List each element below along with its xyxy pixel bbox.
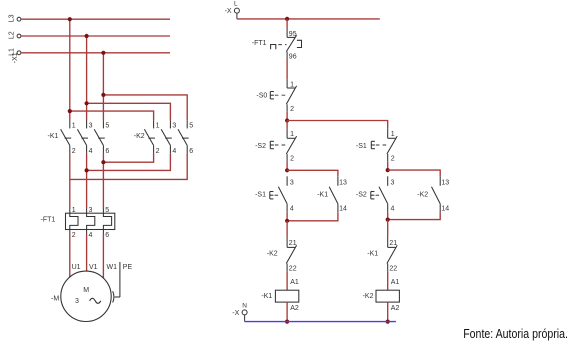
pushbutton actuator S1 NC bbox=[371, 141, 375, 148]
dashed link S0 bbox=[275, 94, 287, 96]
wire K1:2 to FT1:1 bbox=[69, 153, 71, 208]
svg-text:6: 6 bbox=[105, 232, 109, 239]
wire L2 branch to K2:3 bbox=[87, 103, 171, 120]
svg-text:96: 96 bbox=[289, 53, 297, 60]
svg-text:5: 5 bbox=[105, 123, 109, 130]
svg-text:22: 22 bbox=[389, 266, 397, 273]
contactor K1 pole 3-4 bbox=[77, 120, 92, 154]
svg-text:-K1: -K1 bbox=[48, 133, 59, 140]
thermal overload relay FT1 bbox=[41, 207, 115, 239]
svg-text:5: 5 bbox=[105, 207, 109, 214]
node tap K2:1 bbox=[68, 109, 72, 113]
node K2:4/K1:4 bbox=[85, 168, 89, 172]
coil K1 A1-A2 bbox=[261, 279, 298, 312]
wire K2:6 to node K1:2 bbox=[70, 153, 187, 179]
wire S1:2 to node bbox=[387, 161, 389, 170]
wire FT1:2 to motor U1 bbox=[69, 234, 71, 279]
svg-text:6: 6 bbox=[189, 148, 193, 155]
svg-text:-S0: -S0 bbox=[256, 93, 267, 100]
contact K2 21-22 (NC) bbox=[286, 238, 296, 273]
svg-text:-X1: -X1 bbox=[12, 52, 19, 63]
svg-text:3: 3 bbox=[290, 180, 294, 187]
stub terminal L bbox=[236, 13, 238, 19]
svg-text:14: 14 bbox=[441, 205, 449, 212]
wire neutral bus (blue) bbox=[245, 321, 396, 323]
node tap K2:3 bbox=[85, 101, 89, 105]
svg-text:6: 6 bbox=[105, 148, 109, 155]
terminal L2 of -X1 bbox=[17, 34, 21, 38]
dashed link S1 bbox=[275, 194, 281, 196]
svg-text:L3: L3 bbox=[9, 14, 16, 22]
wire FT1:4 to motor V1 bbox=[86, 234, 88, 272]
svg-text:2: 2 bbox=[72, 232, 76, 239]
terminal L of -X1 (control top) bbox=[234, 8, 239, 13]
wire L2 bus bbox=[21, 35, 170, 37]
wire K2:A2 to neutral bbox=[387, 302, 389, 322]
contactor K2 pole 1-2 bbox=[144, 120, 159, 154]
svg-text:4: 4 bbox=[290, 205, 294, 212]
wire branch to K2 rung bbox=[287, 121, 388, 129]
svg-text:4: 4 bbox=[172, 148, 176, 155]
contactor K1 pole 5-6 bbox=[94, 120, 109, 154]
svg-text:1: 1 bbox=[391, 131, 395, 138]
wire K1:14 to node bbox=[287, 212, 338, 221]
wire node to K1:21 bbox=[387, 220, 389, 238]
contactor K1 pole 1-2 bbox=[61, 120, 76, 154]
svg-text:L2: L2 bbox=[9, 31, 16, 39]
svg-text:21: 21 bbox=[389, 240, 397, 247]
svg-text:2: 2 bbox=[290, 156, 294, 163]
coil K2 A1-A2 bbox=[363, 279, 400, 312]
svg-text:-M: -M bbox=[51, 296, 59, 303]
svg-text:3: 3 bbox=[89, 207, 93, 214]
node top bus / FT1 bbox=[285, 17, 289, 21]
svg-text:U1: U1 bbox=[72, 264, 81, 271]
svg-text:A2: A2 bbox=[290, 305, 299, 312]
svg-text:V1: V1 bbox=[89, 264, 98, 271]
node S2:2 / parallel bbox=[285, 168, 289, 172]
contact K1 13-14 (NO aux) bbox=[329, 176, 347, 212]
svg-text:A1: A1 bbox=[391, 279, 400, 286]
terminal L1 of -X1 bbox=[17, 51, 21, 55]
svg-text:2: 2 bbox=[156, 148, 160, 155]
thermal actuator symbol FT1 bbox=[271, 45, 276, 50]
pushbutton actuator S1 bbox=[270, 192, 274, 199]
svg-text:4: 4 bbox=[89, 232, 93, 239]
pushbutton actuator S2 NO bbox=[371, 192, 375, 199]
node neutral / K2 bbox=[386, 320, 390, 324]
svg-text:L: L bbox=[234, 1, 238, 8]
wire K1:A2 to neutral bbox=[286, 302, 288, 322]
contactor K2 pole 3-4 bbox=[161, 120, 176, 154]
svg-text:22: 22 bbox=[289, 266, 297, 273]
wire L2 to K1:3 bbox=[86, 36, 88, 120]
contact S2 3-4 (NO) bbox=[379, 176, 395, 212]
svg-text:-K1: -K1 bbox=[317, 191, 328, 198]
dashed link FT1 bbox=[278, 44, 286, 46]
node S1:2 / parallel right bbox=[386, 168, 390, 172]
svg-text:13: 13 bbox=[339, 180, 347, 187]
svg-text:PE: PE bbox=[123, 264, 133, 271]
svg-text:A2: A2 bbox=[391, 305, 400, 312]
svg-text:-FT1: -FT1 bbox=[41, 217, 56, 224]
svg-text:95: 95 bbox=[289, 31, 297, 38]
wire S1:4 to node bbox=[286, 212, 288, 221]
svg-text:-K2: -K2 bbox=[363, 293, 374, 300]
wire K2:2 to node K1:6 bbox=[103, 153, 153, 162]
svg-text:-K2: -K2 bbox=[267, 251, 278, 258]
dashed link S2 NO bbox=[376, 194, 382, 196]
PE conductor bbox=[113, 262, 133, 303]
svg-text:-K1: -K1 bbox=[261, 293, 272, 300]
contact S0 1-2 (NC) bbox=[286, 79, 296, 113]
wire L3 bus bbox=[21, 18, 170, 20]
svg-text:3: 3 bbox=[75, 298, 79, 305]
svg-text:4: 4 bbox=[89, 148, 93, 155]
dashed link S2 bbox=[275, 144, 287, 146]
svg-text:-S1: -S1 bbox=[255, 191, 266, 198]
wire K2:14 to node bbox=[388, 212, 441, 219]
svg-text:Fonte: Autoria própria.: Fonte: Autoria própria. bbox=[463, 326, 568, 341]
stub terminal N bbox=[244, 315, 246, 322]
node L2/K1 tap bbox=[85, 34, 89, 38]
svg-text:-S2: -S2 bbox=[356, 191, 367, 198]
terminal L3 of -X1 bbox=[17, 17, 21, 21]
wire K2:4 to node K1:4 bbox=[87, 153, 171, 170]
contact S1 1-2 (NC) bbox=[387, 129, 397, 163]
svg-text:1: 1 bbox=[72, 207, 76, 214]
wire node to S2:1 bbox=[286, 121, 288, 129]
wire L3 to K1:1 bbox=[69, 19, 71, 120]
svg-text:-K2: -K2 bbox=[134, 133, 145, 140]
svg-text:-K2: -K2 bbox=[417, 191, 428, 198]
pushbutton actuator S0 bbox=[270, 92, 274, 99]
node parallel bottom left bbox=[285, 219, 289, 223]
wire FT1:96 to S0:1 bbox=[286, 59, 288, 79]
wire L3 branch to K2:1 bbox=[70, 111, 154, 120]
node neutral / K1 bbox=[285, 320, 289, 324]
svg-text:3: 3 bbox=[172, 123, 176, 130]
wire L1 branch to K2:5 bbox=[103, 95, 187, 121]
wire K1:22 to K2 coil A1 bbox=[387, 271, 389, 290]
pushbutton actuator S2 bbox=[270, 141, 274, 148]
wire K1:6 to FT1:5 bbox=[102, 153, 104, 208]
svg-text:1: 1 bbox=[72, 123, 76, 130]
svg-text:13: 13 bbox=[441, 180, 449, 187]
svg-text:W1: W1 bbox=[107, 264, 118, 271]
svg-text:3: 3 bbox=[89, 123, 93, 130]
contact K2 13-14 (NO aux) bbox=[432, 176, 450, 212]
svg-text:2: 2 bbox=[290, 106, 294, 113]
svg-text:-FT1: -FT1 bbox=[252, 40, 267, 47]
terminal N of -X1 (control bottom) bbox=[242, 310, 247, 315]
svg-text:-K1: -K1 bbox=[367, 251, 378, 258]
contact K1 21-22 (NC) bbox=[387, 238, 397, 273]
node L3/K1 tap bbox=[68, 17, 72, 21]
wire to K1 aux 13 bbox=[287, 170, 338, 176]
svg-text:A1: A1 bbox=[290, 279, 299, 286]
node S0:2 branch bbox=[285, 118, 289, 122]
wire L1 to K1:5 bbox=[102, 53, 104, 121]
motor -M 3~ bbox=[51, 264, 117, 321]
wire S0:2 to node bbox=[286, 112, 288, 121]
node parallel bottom right bbox=[386, 218, 390, 222]
wire control top bus bbox=[237, 18, 380, 20]
svg-text:1: 1 bbox=[156, 123, 160, 130]
wire bus to FT1:95 bbox=[286, 19, 288, 29]
wire K1:4 to FT1:3 bbox=[86, 153, 88, 208]
svg-text:1: 1 bbox=[290, 82, 294, 89]
svg-text:-S1: -S1 bbox=[356, 143, 367, 150]
wire S2:4 to node bbox=[387, 212, 389, 219]
wire L1 bus bbox=[21, 52, 170, 54]
svg-text:-X: -X bbox=[232, 310, 239, 317]
wire FT1:6 to motor W1 bbox=[102, 234, 104, 279]
wire node to K2:21 bbox=[286, 221, 288, 238]
svg-text:2: 2 bbox=[72, 148, 76, 155]
svg-text:3: 3 bbox=[391, 180, 395, 187]
svg-text:5: 5 bbox=[189, 123, 193, 130]
contact S2 1-2 (NC) bbox=[286, 129, 296, 163]
contact FT1 95-96 (NC) bbox=[286, 29, 301, 61]
contact S1 3-4 (NO) bbox=[278, 176, 294, 212]
svg-text:-S2: -S2 bbox=[255, 143, 266, 150]
wire to K2 aux 13 bbox=[388, 170, 441, 176]
svg-text:2: 2 bbox=[391, 156, 395, 163]
node K2:2/K1:6 bbox=[101, 160, 105, 164]
svg-text:M: M bbox=[83, 287, 89, 294]
wire S2:2 to node bbox=[286, 161, 288, 170]
node L1/K1 tap bbox=[101, 51, 105, 55]
svg-text:4: 4 bbox=[391, 205, 395, 212]
svg-text:N: N bbox=[242, 303, 247, 310]
svg-text:14: 14 bbox=[339, 205, 347, 212]
svg-text:21: 21 bbox=[289, 240, 297, 247]
contactor K2 pole 5-6 bbox=[178, 120, 193, 154]
wire K2:22 to K1 coil A1 bbox=[286, 271, 288, 290]
svg-text:-X: -X bbox=[225, 8, 232, 15]
svg-text:1: 1 bbox=[290, 131, 294, 138]
node tap K2:5 bbox=[101, 93, 105, 97]
dashed link S1 NC bbox=[376, 144, 387, 146]
